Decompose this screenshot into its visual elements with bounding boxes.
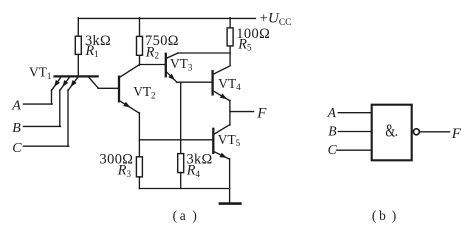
label R5 (237, 36, 252, 52)
node F label (256, 105, 267, 121)
resistor R1 (75, 36, 81, 54)
node C label (12, 141, 22, 156)
transistor VT5 base bar (212, 129, 214, 153)
node B label (12, 121, 21, 136)
wire: input A stub (338, 112, 371, 114)
wire: rail to R5 (229, 18, 231, 66)
svg-text:VT3: VT3 (170, 56, 193, 72)
svg-text:B: B (12, 121, 21, 136)
resistor R3 (136, 157, 142, 177)
svg-text:VT1: VT1 (29, 65, 51, 81)
resistor R4 (178, 154, 184, 173)
transistor VT4 base bar (211, 71, 213, 94)
wire: VT4 emitter down to output node (229, 100, 231, 125)
caption (b) (372, 208, 396, 223)
label VT2 (133, 84, 155, 100)
svg-text:VT5: VT5 (218, 132, 241, 148)
node C label (logic symbol) (328, 142, 338, 157)
wire: +Ucc power rail (78, 17, 255, 19)
label R1 value 3kΩ (85, 33, 111, 49)
transistor VT2 emitter (120, 101, 140, 113)
transistor VT4 emitter (213, 91, 230, 101)
transistor VT1 emitter 1 (input A) (52, 77, 62, 104)
node B label (logic symbol) (328, 123, 336, 138)
svg-text:VT2: VT2 (133, 84, 155, 100)
svg-text:VT4: VT4 (218, 76, 241, 92)
label VT3 (170, 56, 193, 72)
wire: rail to R1 and R1 to VT1 base (77, 18, 79, 77)
input wire A (23, 103, 52, 105)
svg-text:300Ω: 300Ω (100, 151, 134, 167)
svg-text:A: A (11, 99, 21, 114)
wire: VT3 emitter to VT4 base (177, 81, 213, 83)
wire: R4 to bottom rail (180, 172, 182, 188)
node A label (11, 99, 21, 114)
svg-text:&: & (385, 121, 395, 141)
transistor VT3 base bar (165, 54, 167, 77)
node F label (logic symbol) (451, 126, 462, 142)
svg-text:C: C (12, 141, 22, 156)
resistor R5 (227, 28, 233, 46)
node A label (logic symbol) (327, 105, 337, 120)
wire: VT2 emitter down to R3 / VT5 base node (138, 113, 140, 157)
label VT4 (218, 76, 241, 92)
wire: VT3 emitter node down to R4 (180, 82, 182, 153)
label & (AND function) (385, 121, 397, 141)
label R4 (186, 163, 201, 179)
wire: VT2 collector / R2 to VT3 base (140, 64, 166, 66)
node +Ucc label (260, 11, 292, 28)
caption (a) (173, 208, 197, 223)
wire: input C stub (337, 149, 372, 151)
svg-text:(a): (a) (173, 208, 197, 223)
svg-text:(b): (b) (372, 208, 396, 223)
wire: R3 to bottom rail (138, 177, 140, 189)
svg-text:A: A (327, 105, 337, 120)
wire: bottom ground rail (139, 188, 229, 190)
AND-gate box U1 (372, 105, 412, 161)
label VT1 (29, 65, 51, 81)
wire: VT5 emitter down to ground (229, 159, 231, 204)
transistor VT1 base bar (55, 75, 98, 77)
transistor VT1 collector (89, 77, 120, 88)
transistor VT1 emitter 2 (input B) (60, 77, 70, 126)
inversion bubble (413, 129, 419, 135)
svg-text:B: B (328, 123, 336, 138)
input wire B (23, 125, 60, 127)
transistor VT1 emitter 3 (input C) (68, 77, 78, 146)
label R2 (145, 45, 159, 61)
label VT5 (218, 132, 241, 148)
label R1 (85, 43, 99, 59)
ground (220, 202, 240, 205)
wire: output F tap (230, 111, 254, 113)
transistor VT4 collector (213, 66, 230, 74)
transistor VT5 emitter (214, 152, 230, 160)
transistor VT2 base bar (118, 77, 120, 102)
transistor VT5 collector (214, 125, 230, 135)
svg-text:F: F (256, 105, 267, 121)
input wire C (23, 145, 68, 147)
wire: input B stub (338, 131, 371, 133)
label R3 value 300Ω (100, 151, 134, 167)
label R5 value 100Ω (236, 26, 270, 42)
label R4 value 3kΩ (187, 151, 213, 167)
resistor R2 (137, 36, 143, 55)
wire: VT2 emitter node to VT5 base (middle rail) (139, 139, 213, 141)
transistor VT2 collector (120, 65, 140, 78)
transistor VT3 emitter (166, 72, 177, 82)
transistor VT3 collector (166, 53, 230, 58)
label R2 value 750Ω (145, 33, 179, 49)
wire: output F (logic symbol) (420, 131, 450, 133)
wire: rail to R2 (139, 18, 141, 65)
label R3 (117, 163, 132, 179)
svg-text:F: F (451, 126, 462, 142)
